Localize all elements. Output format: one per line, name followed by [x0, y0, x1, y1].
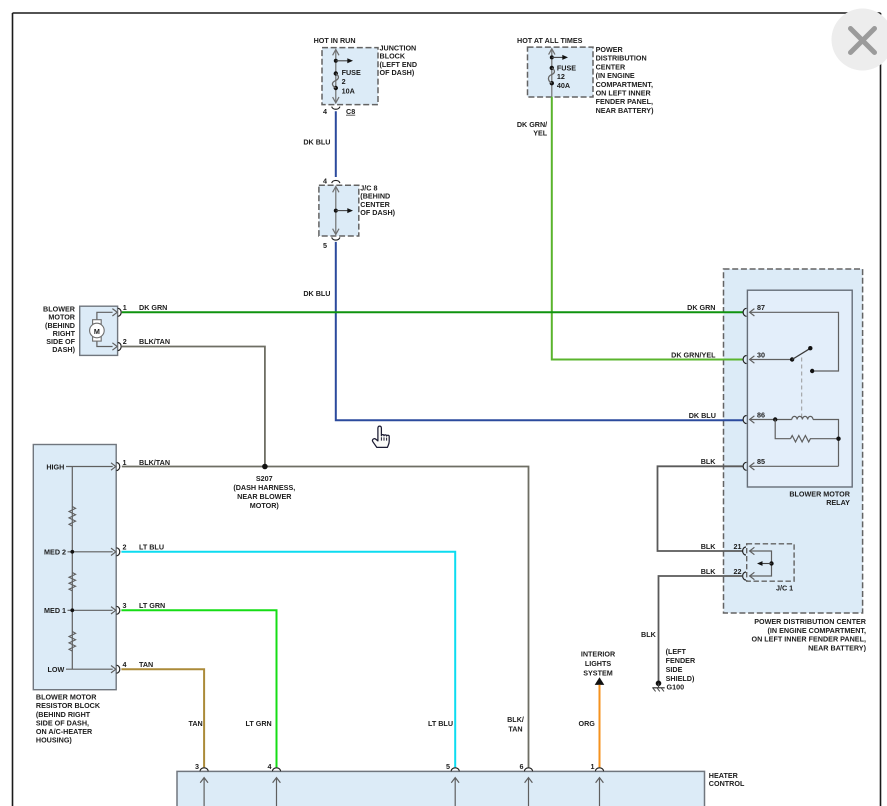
- fuse F2 10A: [332, 71, 338, 90]
- relay coil L1: [750, 416, 839, 466]
- svg-text:LIGHTS: LIGHTS: [585, 659, 612, 668]
- svg-text:10A: 10A: [342, 86, 355, 95]
- svg-text:FENDER PANEL,: FENDER PANEL,: [596, 97, 653, 106]
- svg-text:M: M: [94, 327, 100, 336]
- svg-text:LT GRN: LT GRN: [246, 719, 272, 728]
- J/C 8 internal wire: [333, 187, 339, 235]
- svg-text:3: 3: [195, 762, 199, 771]
- svg-text:RELAY: RELAY: [826, 498, 850, 507]
- mouse cursor: [372, 426, 389, 447]
- svg-text:C8: C8: [346, 107, 355, 116]
- svg-text:40A: 40A: [557, 81, 570, 90]
- node: J/C 8 branch tap: [334, 208, 353, 213]
- svg-text:TAN: TAN: [508, 725, 522, 734]
- pin 5 of heater control: [446, 762, 459, 806]
- motor M1 internal wiring: [97, 312, 113, 346]
- label (LEFT FENDER SIDE SHIELD): [666, 647, 696, 683]
- svg-text:FENDER: FENDER: [666, 656, 696, 665]
- svg-text:CONTROL: CONTROL: [709, 779, 745, 788]
- svg-text:1: 1: [123, 303, 127, 312]
- pin 4 of heater control: [268, 762, 281, 806]
- svg-text:TAN: TAN: [189, 719, 203, 728]
- svg-text:87: 87: [757, 303, 765, 312]
- svg-text:BLK: BLK: [701, 567, 717, 576]
- wire DK GRN (blower motor to relay pin 87): [122, 311, 744, 313]
- PDC fuse internal feed wire: [549, 49, 555, 97]
- resistor R-med1 (between MED 1 and LOW): [69, 632, 76, 652]
- label POWER DISTRIBUTION CENTER: [596, 45, 655, 115]
- svg-text:SHIELD): SHIELD): [666, 674, 695, 683]
- relay resistor R1 (parallel with coil): [775, 420, 841, 442]
- svg-text:OF DASH): OF DASH): [380, 68, 415, 77]
- node MED 2 tap: [70, 550, 74, 554]
- pin 85 of relay: [743, 457, 838, 470]
- J/C 1 junction connector: [747, 544, 794, 581]
- svg-text:DK BLU: DK BLU: [689, 411, 716, 420]
- svg-text:MOTOR): MOTOR): [250, 501, 280, 510]
- resistor block internal wires: [66, 467, 113, 670]
- svg-text:ON LEFT INNER FENDER PANEL,: ON LEFT INNER FENDER PANEL,: [752, 635, 866, 644]
- ground G100: [652, 681, 684, 692]
- label BLOWER MOTOR (BEHIND RIGHT SIDE OF DASH): [43, 305, 76, 355]
- pin 87 of relay: [743, 303, 765, 316]
- pin 5 of J/C 8: [323, 237, 340, 250]
- node S207 splice: [262, 464, 268, 470]
- wire ORG (heater control pin 1 to interior lights system): [599, 685, 601, 768]
- J/C 8 junction connector: [319, 185, 359, 236]
- junction block (fuse box, left end of dash): [322, 48, 378, 105]
- svg-text:DK BLU: DK BLU: [303, 289, 330, 298]
- connector pin 4 of J/C 8: [323, 177, 340, 186]
- svg-text:BLK: BLK: [701, 457, 717, 466]
- close button: [832, 9, 887, 71]
- wire LT GRN (resistor pin 3 to heater control pin 4): [121, 610, 276, 767]
- interior lights off-page arrow: [595, 677, 605, 685]
- svg-text:(IN ENGINE: (IN ENGINE: [596, 71, 635, 80]
- svg-text:(DASH HARNESS,: (DASH HARNESS,: [233, 483, 295, 492]
- svg-text:DK BLU: DK BLU: [303, 138, 330, 147]
- motor M1 symbol: [90, 320, 105, 341]
- wire TAN (resistor pin 4 to heater control pin 3): [121, 669, 204, 767]
- svg-text:HOUSING): HOUSING): [36, 736, 73, 745]
- svg-text:ON LEFT INNER: ON LEFT INNER: [596, 89, 652, 98]
- pin 1 of resistor block: [111, 458, 127, 471]
- svg-text:MED 2: MED 2: [44, 548, 66, 557]
- svg-text:HOT AT ALL TIMES: HOT AT ALL TIMES: [517, 36, 583, 45]
- wire BLK (relay pin 85 to J/C 1 pin 21): [658, 466, 743, 551]
- svg-text:POWER: POWER: [596, 45, 624, 54]
- svg-text:FUSE: FUSE: [342, 68, 361, 77]
- svg-text:S207: S207: [256, 474, 273, 483]
- svg-text:4: 4: [123, 660, 127, 669]
- svg-text:MED 1: MED 1: [44, 606, 66, 615]
- svg-text:22: 22: [734, 567, 742, 576]
- blower motor resistor block box: [33, 445, 116, 690]
- svg-text:(LEFT: (LEFT: [666, 647, 687, 656]
- svg-text:LT GRN: LT GRN: [139, 601, 165, 610]
- pin 3 of resistor block: [111, 601, 127, 614]
- svg-text:HIGH: HIGH: [46, 462, 64, 471]
- svg-text:INTERIOR: INTERIOR: [581, 650, 616, 659]
- blower motor relay box: [747, 290, 852, 487]
- relay switch arm: [750, 346, 813, 362]
- svg-text:4: 4: [323, 177, 327, 186]
- wire DK BLU (J/C 8 to relay pin 86): [336, 242, 744, 420]
- svg-text:2: 2: [123, 337, 127, 346]
- svg-text:4: 4: [323, 107, 327, 116]
- svg-text:LOW: LOW: [48, 665, 65, 674]
- svg-text:NEAR BLOWER: NEAR BLOWER: [237, 492, 292, 501]
- fuse F12 40A: [548, 66, 554, 86]
- pin 4 of resistor block: [111, 660, 127, 673]
- svg-text:1: 1: [591, 762, 595, 771]
- node: junction block branch tap: [334, 58, 353, 63]
- svg-text:NEAR BATTERY): NEAR BATTERY): [808, 643, 867, 652]
- value label FUSE 2 10A: [342, 68, 361, 95]
- wire BLK/TAN (blower motor pin 2 to S207): [122, 347, 265, 467]
- connector C8: [332, 107, 356, 116]
- svg-text:DK GRN/: DK GRN/: [517, 120, 547, 129]
- svg-text:4: 4: [268, 762, 272, 771]
- pin 22 of J/C 1: [734, 567, 755, 580]
- relay contact branch (87): [750, 312, 839, 373]
- svg-text:POWER DISTRIBUTION CENTER: POWER DISTRIBUTION CENTER: [754, 617, 867, 626]
- pin 2 of resistor block: [111, 543, 127, 556]
- power distribution center fuse box: [528, 47, 594, 97]
- pin 3 of heater control: [195, 762, 208, 806]
- label DK GRN/ YEL: [517, 120, 548, 138]
- svg-text:YEL: YEL: [533, 129, 548, 138]
- power distribution center dashed box: [724, 269, 863, 613]
- svg-text:NEAR BATTERY): NEAR BATTERY): [596, 106, 655, 115]
- value label FUSE 12 40A: [557, 64, 576, 91]
- resistor R-high (between HIGH and MED 2): [69, 507, 76, 527]
- label J/C 8 (BEHIND CENTER OF DASH): [360, 184, 395, 217]
- svg-text:G100: G100: [667, 683, 685, 692]
- resistor R-med2 (between MED 2 and MED 1): [69, 573, 76, 591]
- svg-text:SYSTEM: SYSTEM: [583, 669, 613, 678]
- svg-text:12: 12: [557, 72, 565, 81]
- label JUNCTION BLOCK (LEFT END OF DASH): [380, 44, 418, 77]
- svg-text:DK GRN/YEL: DK GRN/YEL: [671, 351, 716, 360]
- pin 1 of heater control: [591, 762, 604, 806]
- label BLK/ TAN (at heater control): [507, 715, 524, 733]
- pin 1 of blower motor: [112, 303, 126, 317]
- svg-text:DISTRIBUTION: DISTRIBUTION: [596, 54, 647, 63]
- svg-text:86: 86: [757, 410, 765, 419]
- label BLOWER MOTOR RELAY: [789, 490, 850, 508]
- svg-text:TAN: TAN: [139, 660, 153, 669]
- pin 2 of blower motor: [112, 337, 126, 351]
- svg-text:LT BLU: LT BLU: [428, 719, 453, 728]
- heater control box: [177, 771, 705, 806]
- svg-text:DK GRN: DK GRN: [139, 303, 167, 312]
- svg-text:LT BLU: LT BLU: [139, 543, 164, 552]
- svg-text:CENTER: CENTER: [596, 62, 626, 71]
- label INTERIOR LIGHTS SYSTEM: [581, 650, 616, 678]
- label HEATER CONTROL: [709, 771, 745, 788]
- svg-text:(IN ENGINE COMPARTMENT,: (IN ENGINE COMPARTMENT,: [768, 626, 867, 635]
- svg-text:OF DASH): OF DASH): [360, 208, 395, 217]
- junction block internal feed wire: [333, 50, 339, 104]
- label BLOWER MOTOR RESISTOR BLOCK (BEHIND RIGHT SIDE OF DASH, ON A/C-HEATER HOUSING): [36, 693, 101, 745]
- svg-text:2: 2: [123, 543, 127, 552]
- blower motor box: [80, 306, 118, 355]
- svg-text:HOT IN RUN: HOT IN RUN: [314, 36, 356, 45]
- pin 21 of J/C 1: [734, 542, 755, 555]
- svg-text:J/C 1: J/C 1: [776, 583, 793, 592]
- svg-text:BLK/: BLK/: [507, 715, 524, 724]
- J/C 1 internal bus: [750, 551, 774, 576]
- relay actuation dashed link: [801, 358, 803, 418]
- svg-text:DASH): DASH): [52, 345, 75, 354]
- svg-text:BLK/TAN: BLK/TAN: [139, 458, 170, 467]
- label S207 (DASH HARNESS, NEAR BLOWER MOTOR): [233, 474, 295, 510]
- svg-text:30: 30: [757, 350, 765, 359]
- svg-text:SIDE: SIDE: [666, 665, 683, 674]
- wire DK GRN/YEL (fuse 12 to relay pin 30): [552, 97, 744, 360]
- pin 6 of heater control: [520, 762, 533, 806]
- node: PDC branch tap: [550, 55, 568, 60]
- pin 86 of relay: [743, 410, 765, 423]
- svg-text:ORG: ORG: [579, 719, 596, 728]
- node MED 1 tap: [70, 608, 74, 612]
- wire LT BLU (resistor pin 2 to heater control pin 5): [121, 552, 455, 768]
- svg-text:85: 85: [757, 457, 765, 466]
- svg-text:COMPARTMENT,: COMPARTMENT,: [596, 80, 653, 89]
- svg-text:6: 6: [520, 762, 524, 771]
- pin 30 of relay: [743, 350, 765, 363]
- svg-text:2: 2: [342, 77, 346, 86]
- svg-text:5: 5: [323, 241, 327, 250]
- wire BLK/TAN (resistor block pin 1 through S207 to heater control pin 6): [122, 467, 529, 768]
- svg-text:1: 1: [123, 458, 127, 467]
- svg-text:21: 21: [734, 542, 742, 551]
- label POWER DISTRIBUTION CENTER (IN ENGINE COMPARTMENT, ON LEFT INNER FENDER PANEL, NEAR BATTERY): [752, 617, 867, 652]
- svg-text:BLK/TAN: BLK/TAN: [139, 337, 170, 346]
- svg-text:5: 5: [446, 762, 450, 771]
- svg-text:3: 3: [123, 601, 127, 610]
- wire BLK (J/C 1 pin 22 to G100): [659, 576, 743, 682]
- svg-text:DK GRN: DK GRN: [687, 303, 715, 312]
- svg-text:BLK: BLK: [641, 630, 657, 639]
- svg-text:BLK: BLK: [701, 542, 717, 551]
- wire DK BLU (fuse 2 to J/C 8): [335, 111, 337, 177]
